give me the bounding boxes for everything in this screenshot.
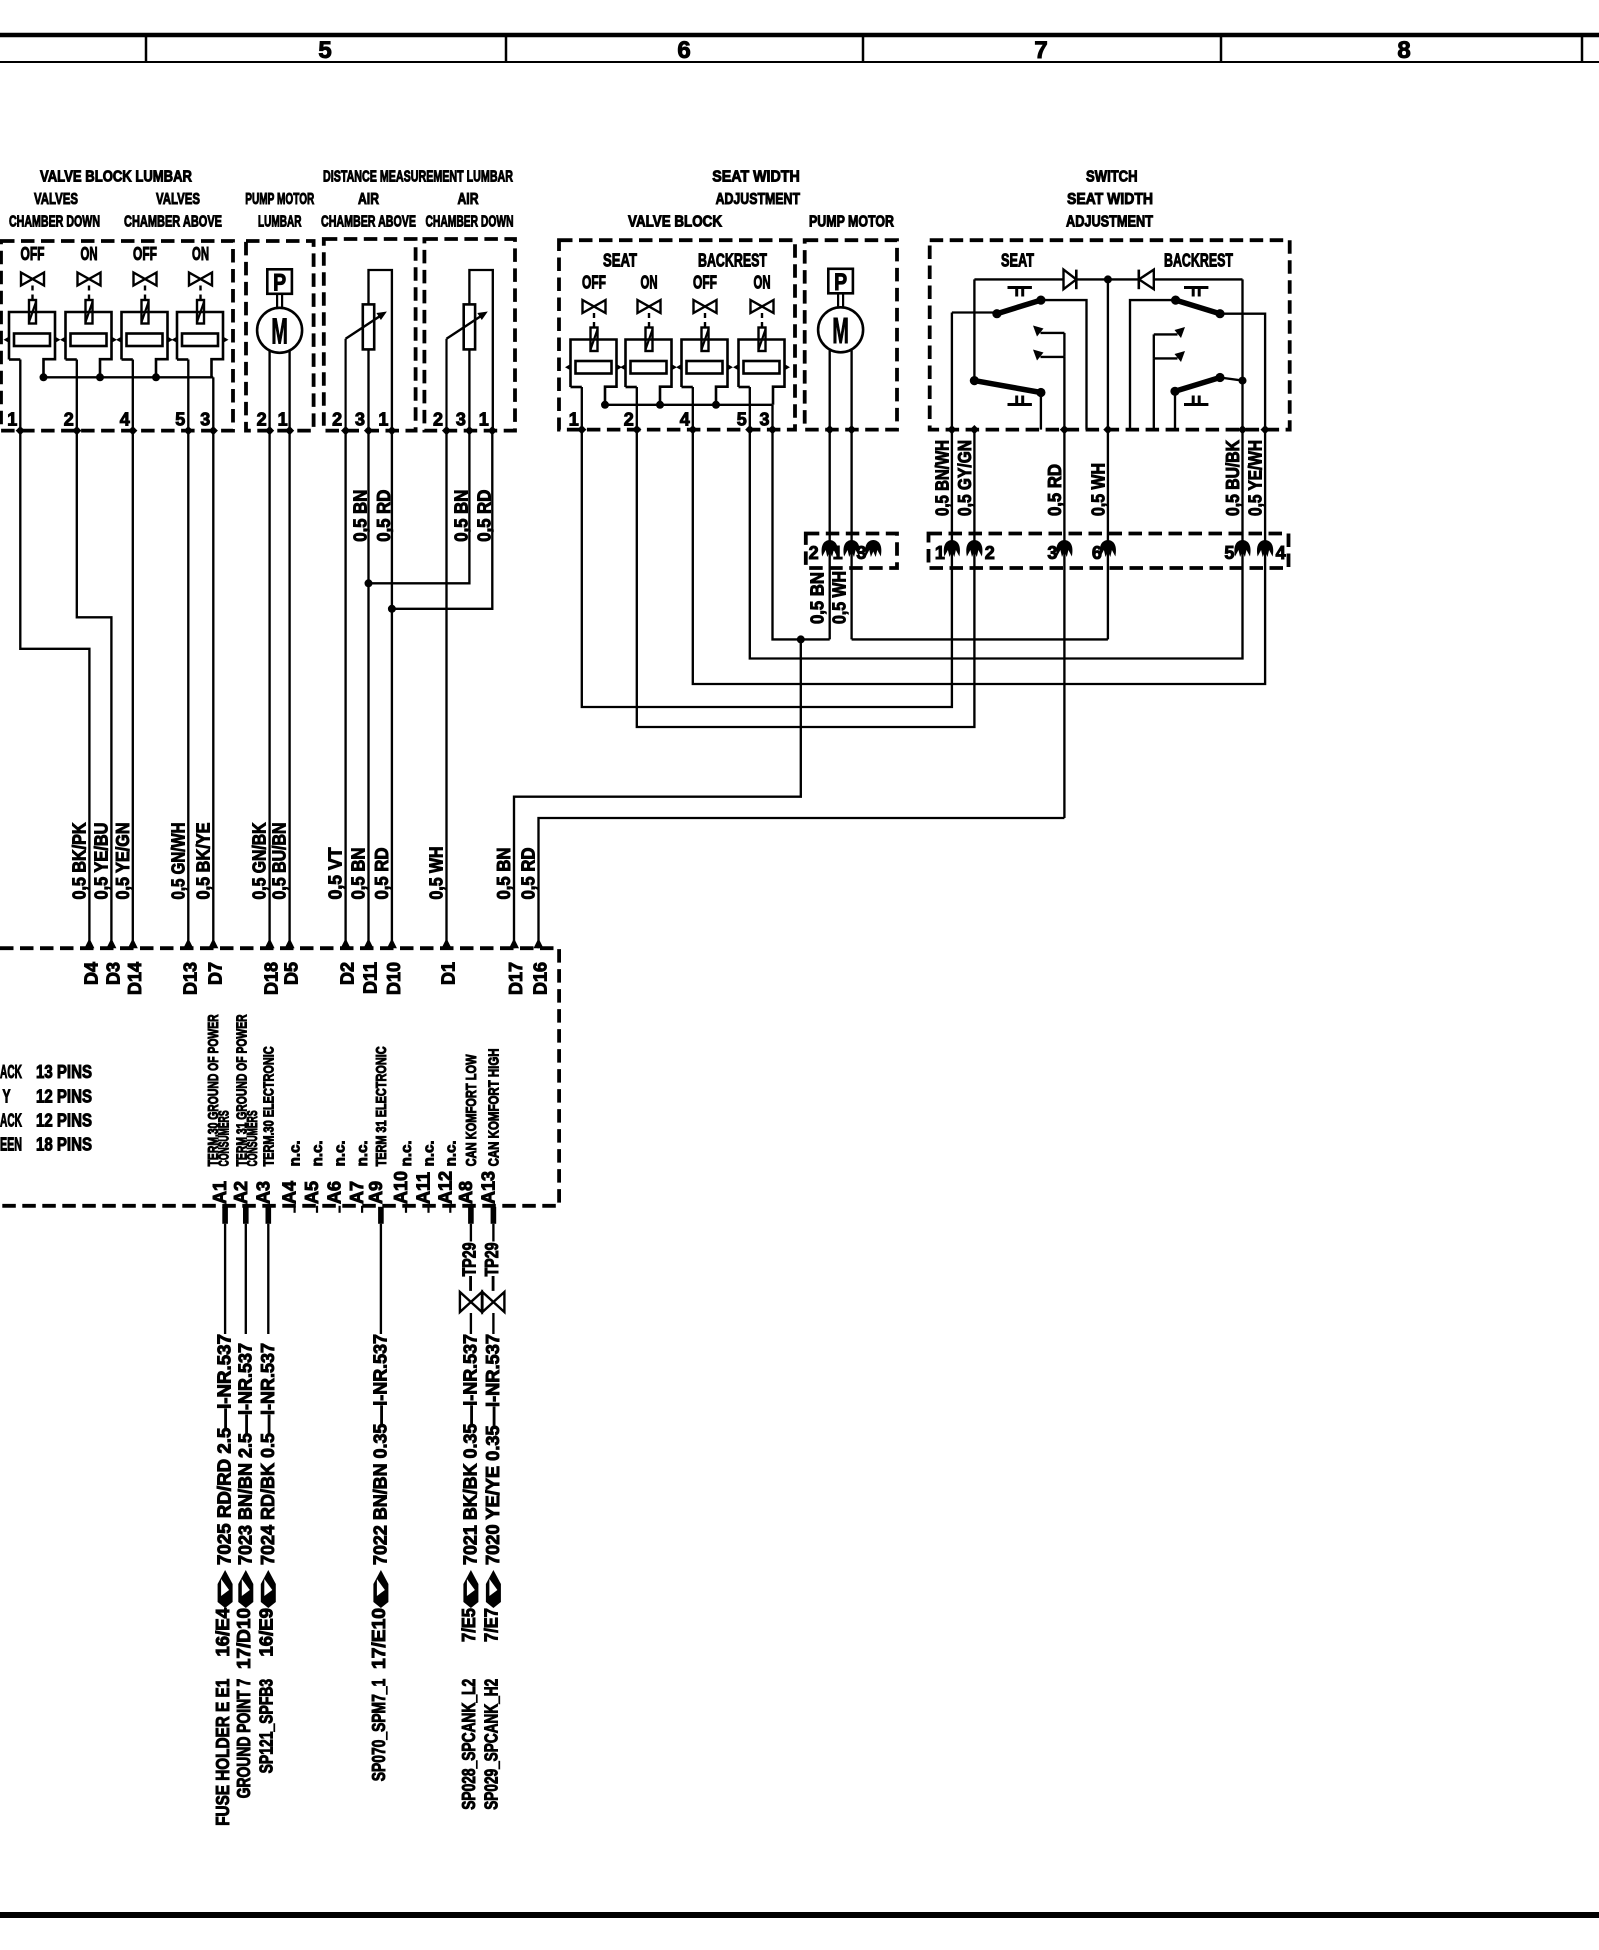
- svg-text:D16: D16: [531, 962, 551, 995]
- svg-text:0,5 WH: 0,5 WH: [427, 847, 447, 900]
- svg-text:ON: ON: [754, 273, 771, 293]
- svg-text:n.c.: n.c.: [442, 1140, 459, 1166]
- svg-text:D11: D11: [361, 962, 381, 994]
- svg-text:TERM 31 ELECTRONIC: TERM 31 ELECTRONIC: [373, 1046, 390, 1166]
- svg-text:A5: A5: [302, 1181, 322, 1204]
- svg-text:1: 1: [935, 543, 945, 563]
- svg-text:0,5 GY/GN: 0,5 GY/GN: [955, 440, 975, 516]
- svg-text:D1: D1: [439, 962, 459, 985]
- svg-text:7: 7: [1034, 37, 1047, 64]
- svg-text:0,5 BN: 0,5 BN: [451, 490, 471, 542]
- svg-text:4: 4: [120, 410, 130, 430]
- svg-text:0,5 BN: 0,5 BN: [349, 848, 369, 900]
- svg-text:n.c.: n.c.: [287, 1140, 304, 1166]
- svg-text:A6: A6: [325, 1181, 345, 1204]
- svg-text:7022 BN/BN 0.35—I-NR.537: 7022 BN/BN 0.35—I-NR.537: [370, 1334, 390, 1565]
- svg-text:D5: D5: [282, 962, 302, 985]
- svg-text:A4: A4: [280, 1181, 300, 1204]
- svg-text:CHAMBER ABOVE: CHAMBER ABOVE: [124, 214, 222, 231]
- svg-text:2: 2: [809, 543, 819, 563]
- svg-text:ADJUSTMENT: ADJUSTMENT: [1066, 214, 1153, 231]
- svg-text:A3: A3: [253, 1181, 273, 1204]
- svg-text:0,5 BU/BN: 0,5 BU/BN: [270, 823, 290, 900]
- svg-text:SEAT WIDTH: SEAT WIDTH: [1067, 191, 1153, 208]
- svg-text:n.c.: n.c.: [354, 1140, 371, 1166]
- svg-text:5: 5: [318, 37, 331, 64]
- svg-text:2: 2: [332, 410, 342, 430]
- svg-text:0,5 RD: 0,5 RD: [372, 848, 392, 900]
- svg-text:VALVE BLOCK LUMBAR: VALVE BLOCK LUMBAR: [40, 169, 192, 186]
- svg-text:ACK: ACK: [0, 1111, 22, 1131]
- svg-text:AIR: AIR: [358, 191, 379, 208]
- svg-text:2: 2: [433, 410, 443, 430]
- svg-text:VALVES: VALVES: [156, 191, 200, 208]
- svg-text:A1: A1: [210, 1181, 230, 1204]
- svg-text:1: 1: [378, 410, 388, 430]
- svg-text:18 PINS: 18 PINS: [36, 1135, 92, 1155]
- svg-text:0,5 RD: 0,5 RD: [374, 490, 394, 542]
- svg-text:7025 RD/RD 2.5—I-NR.537: 7025 RD/RD 2.5—I-NR.537: [215, 1334, 235, 1565]
- svg-text:A9: A9: [366, 1181, 386, 1204]
- svg-text:0,5 YE/BU: 0,5 YE/BU: [91, 823, 111, 900]
- svg-text:7/E7: 7/E7: [481, 1608, 501, 1642]
- svg-text:BACKREST: BACKREST: [698, 251, 767, 271]
- svg-text:SP029_SPCANK_H2: SP029_SPCANK_H2: [481, 1679, 501, 1810]
- svg-text:1: 1: [278, 410, 288, 430]
- svg-text:17/E10: 17/E10: [369, 1608, 389, 1669]
- svg-text:D18: D18: [262, 962, 282, 995]
- svg-text:A12: A12: [435, 1171, 455, 1204]
- svg-text:5: 5: [175, 410, 185, 430]
- svg-text:D3: D3: [103, 962, 123, 985]
- svg-text:0,5 BK/YE: 0,5 BK/YE: [193, 823, 213, 900]
- svg-text:SEAT WIDTH: SEAT WIDTH: [712, 169, 800, 186]
- svg-text:2: 2: [985, 543, 995, 563]
- svg-text:PUMP MOTOR: PUMP MOTOR: [809, 214, 894, 231]
- svg-text:0,5 WH: 0,5 WH: [830, 571, 850, 624]
- svg-text:0,5 RD: 0,5 RD: [1045, 464, 1065, 516]
- svg-text:OFF: OFF: [582, 273, 606, 293]
- svg-text:4: 4: [1276, 543, 1286, 563]
- svg-text:OFF: OFF: [693, 273, 717, 293]
- svg-text:A2: A2: [231, 1181, 251, 1204]
- svg-text:0,5 BN/WH: 0,5 BN/WH: [932, 440, 952, 516]
- svg-text:A11: A11: [414, 1172, 434, 1204]
- svg-text:17/D10: 17/D10: [234, 1608, 254, 1669]
- svg-text:n.c.: n.c.: [421, 1140, 438, 1166]
- svg-text:CAN KOMFORT HIGH: CAN KOMFORT HIGH: [485, 1048, 502, 1166]
- svg-text:—TP29: —TP29: [482, 1243, 502, 1291]
- svg-text:ON: ON: [641, 273, 658, 293]
- svg-text:D7: D7: [205, 962, 225, 985]
- svg-text:7020 YE/YE 0.35—I-NR.537: 7020 YE/YE 0.35—I-NR.537: [483, 1334, 503, 1565]
- svg-text:VALVE BLOCK: VALVE BLOCK: [628, 214, 722, 231]
- svg-text:LUMBAR: LUMBAR: [258, 214, 302, 231]
- svg-text:SP121_SPFB3: SP121_SPFB3: [256, 1679, 276, 1774]
- svg-text:3: 3: [759, 410, 769, 430]
- svg-text:6: 6: [677, 37, 690, 64]
- svg-text:0,5 YE/GN: 0,5 YE/GN: [113, 823, 133, 900]
- svg-text:GROUND POINT 7: GROUND POINT 7: [234, 1679, 254, 1799]
- svg-text:SP070_SPM7_1: SP070_SPM7_1: [369, 1679, 389, 1781]
- svg-text:CONSUMERS: CONSUMERS: [215, 1110, 232, 1166]
- svg-text:SEAT: SEAT: [1001, 251, 1034, 271]
- svg-text:16/E4: 16/E4: [213, 1608, 233, 1657]
- svg-text:OFF: OFF: [133, 244, 157, 264]
- svg-text:3: 3: [1047, 543, 1057, 563]
- svg-text:SWITCH: SWITCH: [1086, 169, 1138, 186]
- svg-text:0,5 BN: 0,5 BN: [494, 848, 514, 900]
- svg-text:n.c.: n.c.: [332, 1140, 349, 1166]
- svg-text:PUMP MOTOR: PUMP MOTOR: [245, 191, 314, 208]
- svg-text:3: 3: [856, 543, 866, 563]
- svg-text:ADJUSTMENT: ADJUSTMENT: [716, 191, 801, 208]
- svg-text:5: 5: [1224, 543, 1234, 563]
- svg-text:0,5 BN: 0,5 BN: [351, 490, 371, 542]
- svg-text:D2: D2: [338, 962, 358, 985]
- svg-text:0,5 YE/WH: 0,5 YE/WH: [1246, 440, 1266, 516]
- svg-text:ACK: ACK: [0, 1062, 22, 1082]
- svg-text:P: P: [834, 269, 847, 296]
- svg-text:0,5 RD: 0,5 RD: [474, 490, 494, 542]
- svg-text:A7: A7: [347, 1181, 367, 1204]
- svg-text:7/E5: 7/E5: [459, 1608, 479, 1642]
- svg-text:3: 3: [200, 410, 210, 430]
- svg-text:4: 4: [680, 410, 690, 430]
- svg-text:3: 3: [355, 410, 365, 430]
- svg-text:SEAT: SEAT: [603, 251, 637, 271]
- svg-text:0,5 VT: 0,5 VT: [326, 848, 346, 900]
- svg-text:16/E9: 16/E9: [256, 1608, 276, 1657]
- svg-text:AIR: AIR: [458, 191, 479, 208]
- svg-text:0,5 GN/BK: 0,5 GN/BK: [250, 823, 270, 900]
- svg-text:2: 2: [257, 410, 267, 430]
- svg-text:CAN KOMFORT LOW: CAN KOMFORT LOW: [463, 1054, 480, 1167]
- svg-text:2: 2: [64, 410, 74, 430]
- svg-text:Y: Y: [3, 1086, 11, 1106]
- svg-text:0,5 RD: 0,5 RD: [519, 848, 539, 900]
- svg-text:12 PINS: 12 PINS: [36, 1086, 92, 1106]
- svg-text:M: M: [271, 310, 288, 351]
- svg-text:5: 5: [737, 410, 747, 430]
- svg-text:6: 6: [1092, 543, 1102, 563]
- svg-text:12 PINS: 12 PINS: [36, 1111, 92, 1131]
- svg-text:1: 1: [479, 410, 489, 430]
- svg-text:0,5 BK/PK: 0,5 BK/PK: [69, 823, 89, 900]
- svg-text:SP028_SPCANK_L2: SP028_SPCANK_L2: [459, 1679, 479, 1810]
- svg-text:—TP29: —TP29: [459, 1243, 479, 1291]
- svg-text:8: 8: [1397, 37, 1410, 64]
- svg-text:P: P: [273, 269, 286, 296]
- svg-text:CHAMBER DOWN: CHAMBER DOWN: [426, 214, 514, 231]
- svg-text:ON: ON: [81, 244, 98, 264]
- svg-text:1: 1: [7, 410, 17, 430]
- svg-text:CHAMBER ABOVE: CHAMBER ABOVE: [321, 214, 416, 231]
- svg-text:FUSE HOLDER E E1: FUSE HOLDER E E1: [213, 1679, 233, 1826]
- svg-text:n.c.: n.c.: [309, 1140, 326, 1166]
- svg-text:A8: A8: [456, 1181, 476, 1204]
- svg-text:7023 BN/BN 2.5—I-NR.537: 7023 BN/BN 2.5—I-NR.537: [235, 1343, 255, 1565]
- svg-text:0,5 BU/BK: 0,5 BU/BK: [1223, 440, 1243, 516]
- svg-text:ON: ON: [192, 244, 209, 264]
- svg-text:7021 BK/BK 0.35—I-NR.537: 7021 BK/BK 0.35—I-NR.537: [460, 1334, 480, 1565]
- svg-text:D4: D4: [81, 962, 101, 985]
- svg-text:0,5 GN/WH: 0,5 GN/WH: [168, 823, 188, 900]
- svg-text:7024 RD/BK 0.5—I-NR.537: 7024 RD/BK 0.5—I-NR.537: [258, 1343, 278, 1565]
- svg-text:OFF: OFF: [21, 244, 45, 264]
- svg-text:0,5 BN: 0,5 BN: [808, 572, 828, 624]
- svg-text:VALVES: VALVES: [34, 191, 78, 208]
- svg-text:EEN: EEN: [0, 1135, 22, 1155]
- svg-text:D17: D17: [506, 962, 526, 995]
- svg-text:2: 2: [624, 410, 634, 430]
- svg-text:D10: D10: [384, 962, 404, 995]
- svg-text:n.c.: n.c.: [398, 1140, 415, 1166]
- svg-text:1: 1: [833, 543, 843, 563]
- svg-text:M: M: [832, 310, 849, 351]
- svg-text:BACKREST: BACKREST: [1164, 251, 1233, 271]
- svg-text:TERM.30 ELECTRONIC: TERM.30 ELECTRONIC: [260, 1046, 277, 1166]
- svg-text:3: 3: [456, 410, 466, 430]
- svg-text:13 PINS: 13 PINS: [36, 1062, 92, 1082]
- svg-text:D14: D14: [125, 962, 145, 995]
- svg-text:A10: A10: [391, 1171, 411, 1204]
- svg-text:0,5 WH: 0,5 WH: [1088, 463, 1108, 516]
- svg-text:D13: D13: [180, 962, 200, 995]
- svg-text:A13: A13: [478, 1171, 498, 1204]
- svg-text:CONSUMERS: CONSUMERS: [244, 1110, 261, 1166]
- svg-text:1: 1: [569, 410, 579, 430]
- svg-text:CHAMBER DOWN: CHAMBER DOWN: [9, 214, 100, 231]
- svg-text:DISTANCE MEASUREMENT LUMBAR: DISTANCE MEASUREMENT LUMBAR: [323, 169, 513, 186]
